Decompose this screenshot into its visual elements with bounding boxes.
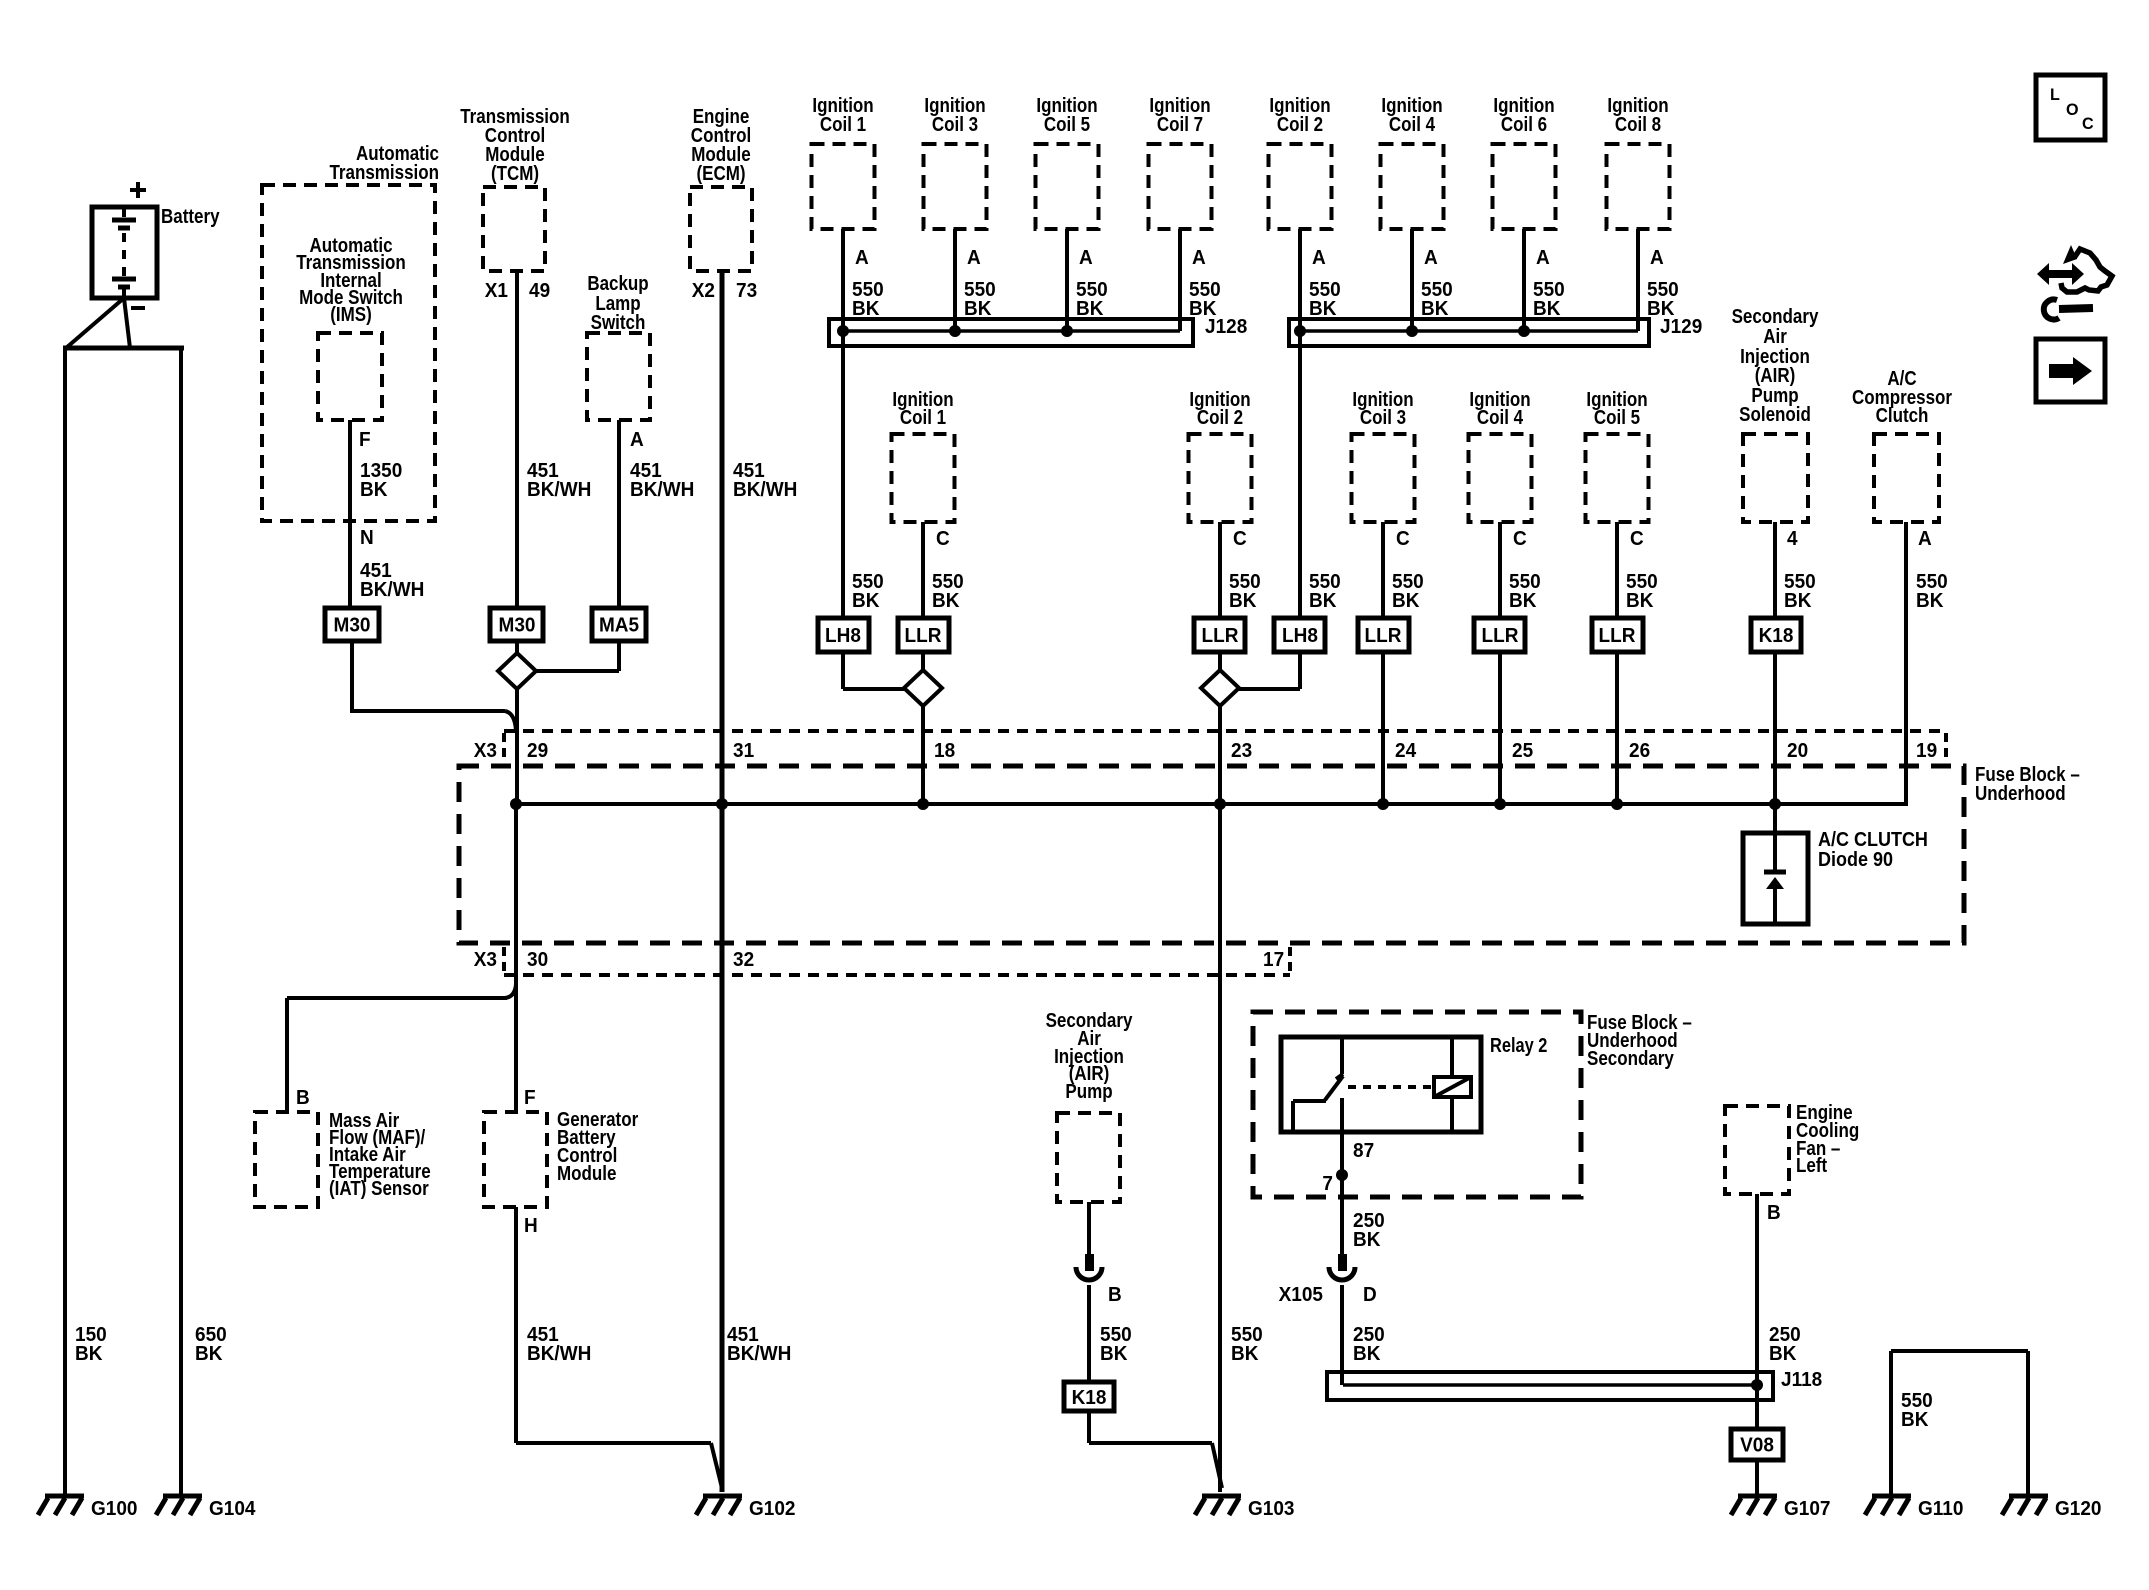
svg-text:C: C (2082, 114, 2094, 133)
svg-text:24: 24 (1395, 740, 1416, 763)
svg-text:C: C (1396, 528, 1410, 551)
wire 451 BK/WH from pin H to G102 (516, 1207, 722, 1488)
TCM label (460, 105, 570, 185)
wire 451 BK/WH from backup lamp switch (619, 420, 694, 608)
svg-text:G102: G102 (749, 1498, 796, 1521)
mass air flow (MAF)/intake air temperature (IAT) sensor (255, 1109, 431, 1207)
svg-text:Solenoid: Solenoid (1739, 403, 1811, 426)
automatic transmission internal mode switch (IMS) (318, 333, 382, 420)
svg-text:A: A (1192, 247, 1206, 270)
svg-text:LLR: LLR (1599, 625, 1636, 648)
wire MA5 to diamond (536, 641, 619, 671)
svg-text:G103: G103 (1248, 1498, 1295, 1521)
svg-text:BK: BK (1231, 1343, 1258, 1366)
automatic transmission label (329, 142, 439, 184)
fuse block - underhood secondary (dashed box) (1253, 1011, 1692, 1197)
internal ground bus of fuse block (510, 798, 1906, 810)
svg-text:BK: BK (1784, 590, 1811, 613)
svg-text:26: 26 (1629, 740, 1650, 763)
svg-text:87: 87 (1353, 1140, 1374, 1163)
svg-text:X2: X2 (692, 280, 715, 303)
battery negative sign (131, 306, 145, 310)
inline connector terminal B (1076, 1254, 1122, 1306)
svg-text:BK: BK (964, 298, 991, 321)
battery B+ terminal plus sign (130, 182, 146, 198)
backup lamp switch (587, 333, 650, 420)
svg-text:29: 29 (527, 740, 548, 763)
svg-text:F: F (359, 429, 371, 452)
transmission control module (TCM) (483, 187, 545, 271)
wire K18 to G103 (1089, 1411, 1222, 1488)
connector LH8 (bank 2) (1274, 618, 1325, 652)
svg-text:G104: G104 (209, 1498, 256, 1521)
pin X1 49 (485, 280, 551, 303)
wires coils 3-5 to bus (1383, 652, 1617, 804)
svg-text:Secondary: Secondary (1587, 1047, 1674, 1070)
svg-text:BK: BK (1229, 590, 1256, 613)
svg-text:20: 20 (1787, 740, 1808, 763)
svg-text:Diode 90: Diode 90 (1818, 849, 1893, 871)
svg-text:Module: Module (557, 1162, 616, 1185)
wire 650 BK to G104 (181, 348, 227, 1494)
svg-text:BK: BK (360, 479, 387, 502)
ignition coil 4 (lower row) (1469, 388, 1541, 618)
ignition coil 4 (top row) (1381, 94, 1453, 331)
splice pack J118 (1327, 1369, 1822, 1400)
wire LH8 to diamond bank2 (1239, 652, 1300, 689)
svg-text:MA5: MA5 (599, 614, 639, 637)
wire M30 to X3-29 (350, 641, 516, 731)
wire 1350 BK (350, 420, 402, 608)
A/C clutch diode 90 (1743, 829, 1928, 924)
ground G104 (156, 1496, 256, 1520)
connector K18 (pump) (1064, 1382, 1114, 1411)
wire 451 BK/WH from IMS (360, 560, 424, 602)
ignition coil 3 (top row) (924, 94, 996, 331)
svg-text:A: A (1650, 247, 1664, 270)
svg-text:Relay 2: Relay 2 (1490, 1033, 1547, 1056)
wire 451 BK/WH from ECM to G102 (722, 271, 797, 1492)
secondary air injection (AIR) pump (1057, 1113, 1120, 1202)
svg-text:V08: V08 (1740, 1434, 1774, 1457)
pin labels X3 30 32 17 (474, 949, 1284, 972)
svg-text:BK/WH: BK/WH (527, 1343, 591, 1366)
svg-text:BK: BK (932, 590, 959, 613)
svg-text:LLR: LLR (1365, 625, 1402, 648)
wire battery negative split (63, 298, 184, 348)
ECM label (691, 105, 751, 185)
svg-text:Left: Left (1796, 1154, 1827, 1177)
svg-text:73: 73 (736, 280, 757, 303)
svg-text:A: A (1079, 247, 1093, 270)
svg-text:BK: BK (1421, 298, 1448, 321)
svg-text:G110: G110 (1918, 1498, 1964, 1521)
svg-text:J129: J129 (1660, 316, 1702, 339)
svg-text:Underhood: Underhood (1975, 782, 2066, 805)
svg-text:L: L (2050, 85, 2060, 104)
svg-text:4: 4 (1787, 528, 1798, 551)
backup lamp switch label (587, 272, 648, 334)
relay 2 (1281, 1033, 1547, 1132)
wire 550 BK solenoid (1775, 522, 1816, 618)
svg-text:X3: X3 (474, 949, 497, 972)
svg-text:BK: BK (1309, 590, 1336, 613)
svg-text:X1: X1 (485, 280, 508, 303)
splice diamond bank2 (1201, 652, 1239, 706)
svg-text:Switch: Switch (591, 311, 646, 334)
svg-text:BK: BK (1916, 590, 1943, 613)
svg-text:Coil 1: Coil 1 (820, 113, 866, 136)
svg-text:H: H (524, 1215, 538, 1238)
svg-text:C: C (1630, 528, 1644, 551)
IMS label (296, 234, 406, 326)
svg-text:Coil 1: Coil 1 (900, 406, 946, 429)
splice M30 (IMS branch) (325, 608, 379, 641)
svg-text:C: C (1513, 528, 1527, 551)
ignition coil 5 (top row) (1036, 94, 1108, 331)
secondary air injection pump solenoid label (1732, 305, 1819, 426)
ground G100 (38, 1496, 138, 1520)
splice MA5 (592, 608, 646, 641)
svg-text:BK: BK (1769, 1343, 1796, 1366)
wire V08 to G107 (1755, 1460, 1759, 1494)
svg-text:X105: X105 (1279, 1284, 1324, 1307)
svg-text:G100: G100 (91, 1498, 138, 1521)
svg-text:C: C (1233, 528, 1247, 551)
splice pack J129 (1289, 316, 1702, 346)
wire 550 BK pump to K18 (1089, 1285, 1132, 1383)
wire pump to inline connector (1087, 1202, 1091, 1254)
next-page arrow box (2036, 339, 2105, 402)
battery (92, 205, 220, 298)
svg-text:23: 23 (1231, 740, 1252, 763)
svg-text:BK: BK (195, 1343, 222, 1366)
svg-text:Coil 2: Coil 2 (1277, 113, 1323, 136)
svg-text:25: 25 (1512, 740, 1533, 763)
svg-text:Transmission: Transmission (329, 161, 439, 184)
svg-text:C: C (936, 528, 950, 551)
svg-text:BK: BK (75, 1343, 102, 1366)
pin A (1918, 528, 1932, 551)
svg-text:BK/WH: BK/WH (733, 479, 797, 502)
svg-text:Coil 3: Coil 3 (1360, 406, 1406, 429)
ignition coil 1 (top row) (812, 94, 884, 320)
splice diamond S-left (498, 641, 536, 689)
svg-text:Coil 7: Coil 7 (1157, 113, 1203, 136)
ignition coil 3 (lower row) (1352, 388, 1424, 618)
svg-text:Coil 5: Coil 5 (1044, 113, 1090, 136)
fuse block - underhood (dashed box) (459, 763, 2080, 943)
connector LLR (coil 4) (1474, 618, 1525, 652)
connector LLR (coil 5) (1592, 618, 1643, 652)
pin F (359, 429, 371, 452)
svg-text:Coil 2: Coil 2 (1197, 406, 1243, 429)
svg-text:A: A (1424, 247, 1438, 270)
splice pack J128 (829, 316, 1247, 346)
svg-text:BK: BK (1309, 298, 1336, 321)
A/C compressor clutch label (1852, 367, 1952, 427)
ignition coil 6 (top row) (1493, 94, 1565, 331)
connector LH8 (bank 1) (818, 618, 869, 652)
svg-text:G120: G120 (2055, 1498, 2102, 1521)
svg-text:31: 31 (733, 740, 754, 763)
connector LLR (coil 1) (898, 618, 949, 652)
svg-text:Coil 8: Coil 8 (1615, 113, 1661, 136)
svg-text:Coil 5: Coil 5 (1594, 406, 1640, 429)
svg-text:32: 32 (733, 949, 754, 972)
svg-text:(IMS): (IMS) (330, 303, 372, 326)
splice M30 (TCM branch) (490, 608, 543, 641)
svg-text:B: B (1767, 1202, 1781, 1225)
ignition coil 2 (top row) (1269, 94, 1341, 320)
wire 250 BK fan to V08 (1757, 1194, 1801, 1429)
wire diamond to G103 through pins 23/17 (1220, 706, 1263, 1492)
wire pin 30 to generator battery control module (514, 804, 518, 1112)
svg-text:BK/WH: BK/WH (727, 1343, 791, 1366)
svg-text:BK: BK (1392, 590, 1419, 613)
wire 550 BK G110-G120 strap (1891, 1351, 2028, 1494)
ignition coil 2 (lower row) (1189, 388, 1261, 618)
svg-text:LH8: LH8 (1282, 625, 1318, 648)
wire J128 output 550 BK (843, 229, 884, 618)
connector LLR (coil 3) (1358, 618, 1409, 652)
ground G102 (696, 1496, 796, 1520)
fuse block connector row X3 top (dotted) (504, 731, 1946, 761)
connector K18 (solenoid) (1751, 618, 1801, 652)
svg-text:BK: BK (852, 298, 879, 321)
connector V08 (1731, 1429, 1783, 1460)
svg-text:M30: M30 (499, 614, 536, 637)
generator battery control module (484, 1108, 638, 1207)
wire 250 BK X105 to J118 (1342, 1285, 1385, 1385)
svg-text:30: 30 (527, 949, 548, 972)
svg-text:A: A (855, 247, 869, 270)
wire 451 BK/WH from TCM (517, 271, 591, 608)
pin H (524, 1215, 538, 1238)
splice diamond bank1 (904, 652, 942, 706)
svg-text:BK/WH: BK/WH (360, 579, 424, 602)
svg-text:LLR: LLR (1202, 625, 1239, 648)
svg-text:BK: BK (1353, 1343, 1380, 1366)
secondary air injection (AIR) pump solenoid (1743, 434, 1808, 522)
pin F generator module (524, 1087, 536, 1110)
svg-text:19: 19 (1916, 740, 1937, 763)
automatic transmission box (262, 185, 435, 521)
ignition coil 8 (top row) (1607, 94, 1679, 331)
svg-text:BK: BK (1626, 590, 1653, 613)
fuse block connector row X3 bottom (dotted) (504, 947, 1290, 975)
svg-text:M30: M30 (334, 614, 371, 637)
pin X2 73 (692, 280, 758, 303)
svg-text:7: 7 (1322, 1173, 1333, 1196)
svg-text:A: A (967, 247, 981, 270)
svg-text:A: A (1918, 528, 1932, 551)
svg-text:F: F (524, 1087, 536, 1110)
ignition coil 5 (lower row) (1586, 388, 1658, 618)
svg-text:(ECM): (ECM) (696, 162, 745, 185)
pin N (360, 527, 374, 550)
svg-text:Coil 6: Coil 6 (1501, 113, 1547, 136)
LOC reference box (2036, 75, 2105, 140)
pin B fan (1767, 1202, 1781, 1225)
svg-text:BK: BK (852, 590, 879, 613)
connector LLR (coil 2) (1194, 618, 1245, 652)
ground G120 (2002, 1496, 2102, 1520)
svg-text:D: D (1363, 1284, 1377, 1307)
svg-text:BK/WH: BK/WH (527, 479, 591, 502)
svg-text:LLR: LLR (1482, 625, 1519, 648)
svg-text:A: A (1536, 247, 1550, 270)
ground G107 (1731, 1496, 1830, 1520)
pin 87 (1353, 1140, 1374, 1163)
pin B MAF (296, 1087, 310, 1110)
svg-text:BK: BK (1076, 298, 1103, 321)
svg-text:LLR: LLR (905, 625, 942, 648)
inline connector X105 pin D (1279, 1254, 1377, 1306)
pin 4 (1787, 528, 1798, 551)
svg-text:BK: BK (1353, 1229, 1380, 1252)
svg-text:Battery: Battery (161, 205, 220, 228)
pin labels X3 29 31 18 23 24 25 26 20 19 (474, 740, 1938, 763)
svg-text:B: B (296, 1087, 310, 1110)
wire K18 to fuse block pin 20 (1773, 652, 1777, 833)
svg-text:BK: BK (1509, 590, 1536, 613)
ground G103 (1195, 1496, 1295, 1520)
svg-text:O: O (2066, 100, 2079, 119)
svg-text:J128: J128 (1205, 316, 1247, 339)
wire 150 BK to G100 (65, 348, 107, 1494)
svg-text:K18: K18 (1759, 625, 1794, 648)
svg-text:49: 49 (529, 280, 550, 303)
svg-text:A: A (630, 429, 644, 452)
svg-text:BK: BK (1100, 1343, 1127, 1366)
wire J129 output 550 BK (1300, 229, 1341, 618)
svg-text:(IAT) Sensor: (IAT) Sensor (329, 1177, 429, 1200)
svg-text:18: 18 (934, 740, 955, 763)
wire relay 87 down (1322, 1132, 1384, 1254)
secondary air injection pump label (1046, 1009, 1133, 1103)
pin A (630, 429, 644, 452)
svg-text:X3: X3 (474, 740, 497, 763)
ignition coil 7 (top row) (1149, 94, 1221, 331)
svg-text:G107: G107 (1784, 1498, 1830, 1521)
engine cooling fan - left (1725, 1106, 1789, 1194)
ground G110 (1865, 1496, 1964, 1520)
svg-text:B: B (1108, 1284, 1122, 1307)
svg-text:A/C CLUTCH: A/C CLUTCH (1818, 829, 1928, 851)
ignition coil 1 (lower row) (892, 388, 964, 618)
svg-text:Pump: Pump (1065, 1080, 1112, 1103)
svg-text:BK: BK (1533, 298, 1560, 321)
svg-text:Coil 4: Coil 4 (1389, 113, 1436, 136)
svg-text:Clutch: Clutch (1876, 404, 1929, 427)
engine control module (ECM) (690, 187, 752, 271)
A/C compressor clutch (1874, 434, 1939, 522)
svg-text:BK/WH: BK/WH (630, 479, 694, 502)
svg-text:N: N (360, 527, 374, 550)
wire diamond to fuse block pin 18 (921, 706, 925, 804)
svg-text:BK: BK (1901, 1409, 1928, 1432)
component view icon (double arrow, loop arrow, wrench) (2037, 245, 2112, 319)
wire 550 BK clutch to pin 19 (1906, 522, 1948, 806)
wire branch to MAF sensor (287, 984, 516, 1112)
svg-text:(TCM): (TCM) (491, 162, 539, 185)
svg-text:A: A (1312, 247, 1326, 270)
svg-text:Coil 3: Coil 3 (932, 113, 978, 136)
wire LH8 to diamond (843, 652, 904, 689)
wire diamond to fuse block pin 29 (515, 689, 519, 804)
svg-text:LH8: LH8 (825, 625, 861, 648)
svg-text:K18: K18 (1072, 1387, 1107, 1410)
engine cooling fan left label (1796, 1101, 1859, 1177)
svg-text:Coil 4: Coil 4 (1477, 406, 1524, 429)
svg-text:17: 17 (1263, 949, 1284, 972)
svg-text:J118: J118 (1781, 1369, 1822, 1392)
